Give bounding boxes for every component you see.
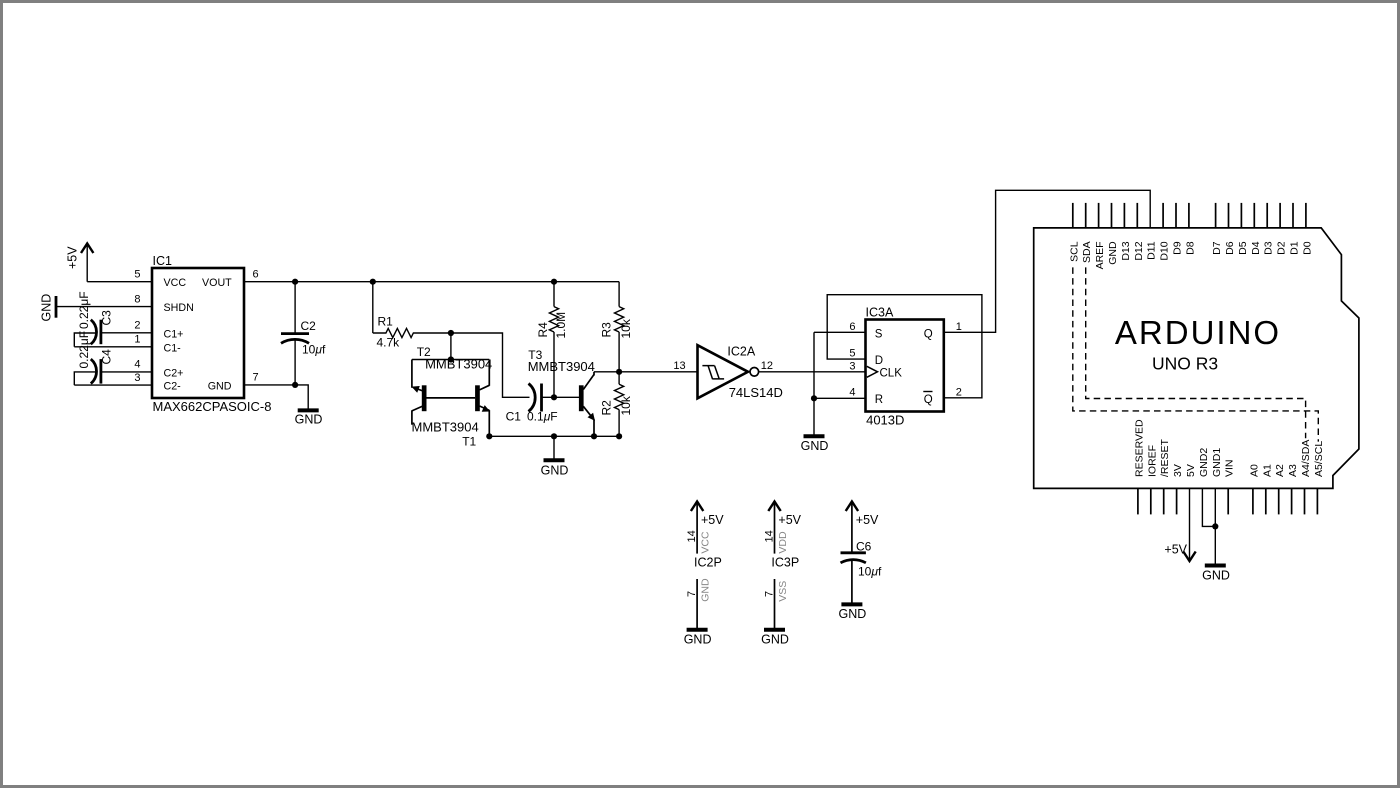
- svg-text:SCL: SCL: [1068, 241, 1080, 262]
- flip-flop IC3A 4013D box: [866, 320, 944, 412]
- wire pin7 GND: [244, 385, 308, 411]
- svg-text:SDA: SDA: [1081, 241, 1093, 263]
- ground G2 below C2: [295, 410, 323, 426]
- ground IC2P GND pin7: [684, 578, 712, 646]
- svg-text:GND: GND: [684, 633, 712, 647]
- svg-text:A0: A0: [1248, 464, 1260, 477]
- node rail R2: [616, 433, 622, 439]
- svg-text:D12: D12: [1133, 241, 1145, 260]
- wire R1 to C1: [451, 333, 530, 397]
- svg-text:IC2P: IC2P: [694, 555, 722, 569]
- svg-text:6: 6: [253, 268, 259, 280]
- svg-text:4: 4: [134, 359, 140, 371]
- svg-text:D2: D2: [1276, 241, 1288, 255]
- svg-text:S: S: [875, 328, 883, 340]
- svg-text:7: 7: [253, 372, 259, 384]
- inverter IC2A 74LS14D: [698, 345, 783, 400]
- svg-text:C4: C4: [100, 349, 114, 365]
- transistor T1: [412, 360, 491, 449]
- svg-text:GND: GND: [801, 439, 829, 453]
- svg-text:D1: D1: [1289, 241, 1301, 255]
- svg-text:4.7k: 4.7k: [377, 336, 401, 350]
- svg-text:C2+: C2+: [164, 367, 184, 379]
- node R3/R2/T3 out: [616, 369, 622, 375]
- svg-text:3: 3: [134, 372, 140, 384]
- capacitor C4: [74, 331, 152, 385]
- node rail gnd: [551, 433, 557, 439]
- svg-text:1: 1: [134, 334, 140, 346]
- svg-text:5V: 5V: [1185, 464, 1197, 477]
- svg-text:7: 7: [686, 591, 698, 597]
- svg-text:0.22μF: 0.22μF: [77, 291, 91, 329]
- svg-text:VDD: VDD: [777, 531, 789, 554]
- svg-text:10k: 10k: [619, 395, 633, 415]
- svg-text:+5V: +5V: [856, 513, 879, 527]
- svg-text:/RESET: /RESET: [1159, 438, 1171, 477]
- ground G6 below C6: [839, 604, 867, 621]
- svg-text:MMBT3904: MMBT3904: [425, 357, 492, 372]
- wire pin5: [87, 281, 152, 283]
- svg-text:D0: D0: [1301, 241, 1313, 255]
- svg-text:5: 5: [134, 268, 140, 280]
- svg-text:C2: C2: [301, 319, 317, 333]
- svg-text:4013D: 4013D: [866, 413, 904, 428]
- power IC2P VCC pin14: [686, 502, 724, 570]
- svg-text:D3: D3: [1263, 241, 1275, 255]
- svg-text:4: 4: [849, 387, 855, 399]
- svg-text:D: D: [875, 355, 883, 367]
- ground G3: [541, 436, 569, 477]
- node R4 top: [551, 279, 557, 285]
- svg-text:IC3P: IC3P: [771, 555, 799, 569]
- node C2 bottom: [292, 382, 298, 388]
- arduino bottom pin stubs: [1138, 488, 1318, 514]
- svg-text:GND: GND: [1107, 241, 1119, 265]
- node rail left: [486, 433, 492, 439]
- node T2 top: [448, 356, 454, 362]
- svg-text:R1: R1: [378, 315, 394, 329]
- resistor R4: [536, 282, 568, 398]
- capacitor C1: [506, 384, 579, 424]
- svg-text:7: 7: [763, 591, 775, 597]
- svg-text:GND: GND: [1202, 569, 1230, 583]
- svg-text:SHDN: SHDN: [164, 302, 194, 314]
- svg-text:C3: C3: [100, 310, 114, 326]
- svg-text:Q: Q: [924, 394, 933, 406]
- capacitor C2: [281, 282, 326, 385]
- svg-text:GND: GND: [208, 381, 232, 393]
- svg-text:RESERVED: RESERVED: [1133, 419, 1145, 477]
- svg-text:C1+: C1+: [164, 328, 184, 340]
- svg-text:AREF: AREF: [1094, 241, 1106, 269]
- wire inverter out to CLK: [759, 371, 866, 373]
- wire T2/T1 top link: [412, 359, 489, 361]
- svg-text:D11: D11: [1146, 241, 1158, 260]
- wire GND1 down: [1214, 488, 1216, 565]
- capacitor C6: [841, 502, 882, 605]
- op IC1 MAX662 box: [152, 268, 244, 398]
- svg-text:CLK: CLK: [880, 368, 903, 380]
- transistor T2: [412, 345, 493, 425]
- wire VOUT rail pin6: [244, 281, 619, 283]
- node S/R junction: [811, 395, 817, 401]
- svg-text:10μf: 10μf: [858, 564, 882, 578]
- IC3A pin names: [875, 328, 933, 406]
- svg-text:A5/SCL: A5/SCL: [1313, 441, 1325, 477]
- power IC3P VDD pin14: [763, 502, 801, 570]
- svg-text:+5V: +5V: [778, 513, 801, 527]
- svg-text:A1: A1: [1261, 464, 1273, 477]
- svg-text:VCC: VCC: [700, 531, 712, 554]
- node C1/R4/T3: [551, 394, 557, 400]
- svg-text:R2: R2: [600, 400, 614, 416]
- ground G5 arduino: [1202, 566, 1230, 583]
- arduino bottom pin labels: [1133, 419, 1325, 477]
- svg-text:6: 6: [849, 321, 855, 333]
- svg-text:ARDUINO: ARDUINO: [1115, 314, 1281, 351]
- capacitor C3: [74, 291, 152, 346]
- wire Q pin1 to D11: [944, 190, 1150, 332]
- svg-text:GND: GND: [761, 633, 789, 647]
- net SDA dashed: [1086, 267, 1306, 438]
- svg-text:R3: R3: [600, 322, 614, 338]
- wire R pin4: [814, 397, 866, 399]
- ground G1: [40, 294, 57, 322]
- svg-text:GND: GND: [541, 464, 569, 478]
- wire R3 node to inverter: [619, 371, 697, 373]
- CLK edge triangle: [867, 366, 878, 377]
- svg-text:D4: D4: [1250, 241, 1262, 255]
- svg-text:3V: 3V: [1172, 464, 1184, 477]
- svg-text:13: 13: [673, 360, 685, 372]
- wire pin8 SHDN: [56, 306, 152, 308]
- svg-text:IC3A: IC3A: [866, 305, 894, 319]
- svg-text:A3: A3: [1287, 464, 1299, 477]
- svg-text:IC1: IC1: [153, 254, 173, 268]
- svg-text:T1: T1: [462, 435, 476, 449]
- svg-text:UNO R3: UNO R3: [1152, 354, 1218, 374]
- IC1 pin numbers: [134, 268, 258, 383]
- svg-text:MMBT3904: MMBT3904: [528, 359, 595, 374]
- node C2 top: [292, 279, 298, 285]
- resistor R2: [600, 372, 634, 437]
- svg-text:8: 8: [134, 293, 140, 305]
- svg-text:+5V: +5V: [1164, 543, 1187, 557]
- transistor T3: [528, 348, 595, 437]
- arduino top pin stubs: [1073, 203, 1306, 228]
- wire GND2 link: [1202, 488, 1215, 526]
- svg-text:GND1: GND1: [1211, 448, 1223, 477]
- arduino top pin labels: [1068, 241, 1313, 269]
- wire T2 branch: [450, 333, 452, 360]
- svg-text:D6: D6: [1224, 241, 1236, 255]
- svg-text:IOREF: IOREF: [1146, 445, 1158, 477]
- svg-text:D5: D5: [1237, 241, 1249, 255]
- resistor R1: [373, 282, 451, 350]
- wire S-R gnd vertical: [813, 332, 815, 436]
- Qbar overline: [923, 391, 932, 393]
- net SCL dashed: [1073, 267, 1319, 441]
- node rail T3: [591, 433, 597, 439]
- ground IC3P VSS pin7: [761, 579, 789, 647]
- svg-text:VIN: VIN: [1224, 459, 1236, 477]
- svg-text:R: R: [875, 394, 883, 406]
- ground G4: [801, 436, 829, 453]
- power +5V P1: [66, 244, 94, 282]
- IC3A pin numbers: [849, 321, 962, 399]
- svg-text:74LS14D: 74LS14D: [729, 385, 783, 400]
- svg-text:D9: D9: [1172, 241, 1184, 255]
- svg-text:10μf: 10μf: [302, 343, 326, 357]
- svg-text:1: 1: [956, 321, 962, 333]
- resistor R3: [600, 282, 634, 372]
- svg-text:GND: GND: [295, 413, 323, 427]
- node R1 top: [370, 279, 376, 285]
- svg-text:2: 2: [956, 387, 962, 399]
- svg-text:1.0M: 1.0M: [554, 312, 568, 339]
- svg-text:D10: D10: [1159, 241, 1171, 260]
- svg-text:D8: D8: [1184, 241, 1196, 255]
- node R1 out / T2 branch: [448, 330, 454, 336]
- svg-text:D13: D13: [1120, 241, 1132, 260]
- svg-text:+5V: +5V: [701, 513, 724, 527]
- svg-text:VOUT: VOUT: [202, 277, 232, 289]
- svg-text:GND: GND: [839, 607, 867, 621]
- svg-text:14: 14: [763, 530, 775, 542]
- node gnd junction: [1212, 523, 1218, 529]
- svg-text:MMBT3904: MMBT3904: [412, 420, 479, 435]
- svg-text:Q: Q: [924, 328, 933, 340]
- wire D pin5 to Qbar: [827, 295, 982, 398]
- svg-text:IC2A: IC2A: [727, 345, 755, 359]
- wire T3 collector link: [594, 371, 619, 373]
- wire emitter rail: [489, 435, 619, 437]
- wire S pin6: [814, 331, 866, 333]
- Arduino UNO R3 body outline: [1034, 228, 1359, 489]
- svg-text:R4: R4: [536, 322, 550, 338]
- svg-text:MAX662CPASOIC-8: MAX662CPASOIC-8: [153, 399, 272, 414]
- svg-text:D7: D7: [1211, 241, 1223, 255]
- svg-text:GND2: GND2: [1198, 448, 1210, 477]
- svg-text:12: 12: [761, 360, 773, 372]
- svg-text:A2: A2: [1274, 464, 1286, 477]
- svg-text:A4/SDA: A4/SDA: [1300, 440, 1312, 477]
- svg-text:0.1μF: 0.1μF: [527, 409, 558, 423]
- svg-text:GND: GND: [40, 294, 54, 322]
- svg-text:3: 3: [849, 360, 855, 372]
- svg-text:VCC: VCC: [164, 277, 187, 289]
- svg-text:+5V: +5V: [66, 246, 80, 269]
- svg-text:GND: GND: [700, 578, 712, 602]
- svg-text:C1-: C1-: [164, 342, 182, 354]
- svg-text:C6: C6: [856, 540, 872, 554]
- IC1 pin names: [164, 277, 233, 392]
- svg-text:0.22μF: 0.22μF: [77, 331, 91, 369]
- svg-text:C1: C1: [506, 409, 522, 423]
- power +5V arduino (down arrow): [1164, 488, 1195, 561]
- svg-text:2: 2: [134, 320, 140, 332]
- svg-text:5: 5: [849, 348, 855, 360]
- svg-text:10k: 10k: [619, 318, 633, 338]
- svg-text:14: 14: [686, 530, 698, 542]
- svg-text:VSS: VSS: [777, 581, 789, 602]
- svg-text:C2-: C2-: [164, 381, 182, 393]
